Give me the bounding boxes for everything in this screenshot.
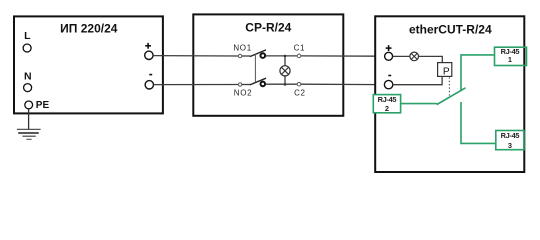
- wire C1 to etherCUT +: [301, 55, 385, 57]
- relay block K1 (CP-R/24): [193, 14, 343, 115]
- svg-text:C1: C1: [294, 44, 306, 53]
- terminal - (U2): [388, 75, 391, 77]
- wire lamp vertical bottom: [284, 76, 286, 85]
- svg-text:RJ-45: RJ-45: [378, 95, 397, 104]
- relay coil P: [438, 63, 452, 77]
- switch blade S1b: [250, 78, 266, 85]
- contact NO2: [238, 83, 241, 86]
- wire ring to C1: [266, 55, 297, 57]
- contact ring C2 side (bottom): [261, 82, 266, 87]
- svg-text:N: N: [24, 70, 32, 82]
- etherCUT block U2 (etherCUT-R/24): [375, 16, 524, 172]
- green wire RJ45-2 to switch pivot: [401, 103, 438, 105]
- wire NO1 to blade: [242, 55, 251, 57]
- svg-text:etherCUT-R/24: etherCUT-R/24: [409, 22, 492, 36]
- RJ-45 port 1 box: [495, 47, 527, 65]
- wire - row: U1 to NO2: [154, 84, 239, 86]
- wire - to P coil: [393, 76, 442, 85]
- svg-text:CP-R/24: CP-R/24: [245, 21, 291, 35]
- terminal PE: [25, 101, 33, 109]
- wire + row: U1 to NO1: [153, 55, 238, 57]
- svg-text:L: L: [24, 30, 31, 42]
- switch blade S1a: [250, 50, 266, 57]
- wire NO2 to blade: [242, 84, 251, 86]
- green switch blade: [437, 88, 466, 105]
- svg-text:ИП 220/24: ИП 220/24: [60, 21, 118, 35]
- svg-text:RJ-45: RJ-45: [501, 131, 520, 140]
- terminal C2: [297, 82, 301, 86]
- wire ring to C2: [266, 83, 297, 85]
- wire PE to ground: [28, 109, 30, 130]
- mechanical coupling link: [254, 54, 256, 82]
- junction dot bottom: [284, 83, 287, 86]
- RJ-45 port 3 box: [496, 131, 524, 150]
- svg-text:P: P: [443, 66, 450, 77]
- green wire to RJ45-1: vertical contact: [461, 55, 494, 91]
- green wire to RJ45-3: [461, 102, 496, 143]
- wire + to lamp: [393, 55, 410, 57]
- RJ-45 port 2 box: [373, 95, 400, 113]
- terminal + (U1): [145, 45, 151, 47]
- wire lamp to P: [419, 56, 443, 63]
- junction dot top: [284, 55, 287, 58]
- lamp HL1: [280, 66, 290, 76]
- svg-text:1: 1: [508, 55, 512, 64]
- wire C2 to etherCUT -: [301, 83, 385, 85]
- svg-text:NO2: NO2: [234, 89, 253, 98]
- terminal + (U2): [386, 47, 392, 49]
- svg-text:2: 2: [385, 104, 389, 113]
- terminal - (U1): [149, 74, 152, 76]
- svg-text:PE: PE: [36, 100, 50, 111]
- wire lamp vertical top: [284, 56, 286, 66]
- svg-text:NO1: NO1: [233, 44, 252, 53]
- lamp HL2: [410, 52, 419, 61]
- svg-text:C2: C2: [294, 89, 306, 98]
- power supply block U1 (ИП 220/24): [14, 16, 163, 113]
- ground: [17, 128, 41, 130]
- contact ring C1 side (top): [261, 53, 266, 58]
- svg-text:3: 3: [508, 141, 512, 150]
- dashed actuation link P to switch: [448, 77, 450, 97]
